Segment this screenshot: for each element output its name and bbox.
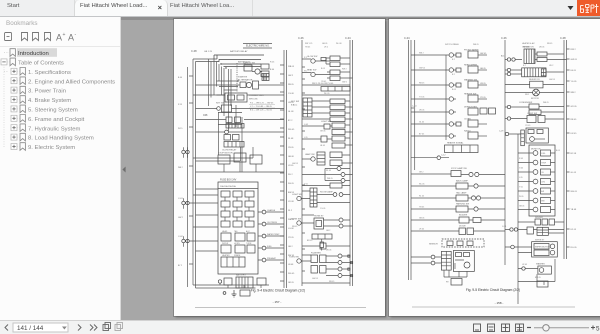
- pilot lamp L3: [258, 233, 284, 238]
- svg-text:L 05: L 05: [519, 177, 523, 179]
- svg-text:OIL PRESS: OIL PRESS: [267, 222, 278, 224]
- extra cluster y222-232: [302, 243, 350, 249]
- svg-text:WL 08: WL 08: [336, 43, 341, 45]
- svg-text:STARTER: STARTER: [238, 76, 248, 79]
- svg-text:-: -: [75, 32, 77, 38]
- svg-text:LIGHT SW: LIGHT SW: [321, 121, 331, 123]
- svg-text:WIPER RY: WIPER RY: [535, 240, 545, 242]
- svg-text:COMP SW: COMP SW: [527, 113, 537, 115]
- svg-text:YR 05: YR 05: [525, 125, 530, 127]
- right rail ticks: [567, 49, 570, 247]
- flasher unit FU1: [311, 252, 326, 263]
- junction box JB1: [526, 128, 548, 143]
- bottom bar: [0, 320, 600, 334]
- left rail ticks marks: [189, 76, 193, 264]
- svg-text:C-01: C-01: [178, 198, 184, 200]
- extra rung page1 y160-168: [302, 183, 350, 188]
- wire ladder feed: [445, 55, 447, 140]
- svg-text:L 05: L 05: [304, 137, 308, 139]
- svg-text:HORN RY: HORN RY: [314, 216, 324, 218]
- svg-text:RL 05: RL 05: [419, 196, 424, 198]
- svg-text:5. Steering System: 5. Steering System: [28, 108, 78, 114]
- svg-text:BW 05: BW 05: [535, 277, 541, 279]
- box slow blow: [257, 278, 266, 285]
- relay bank K3: [222, 135, 244, 152]
- gauge internal labels: [541, 153, 547, 203]
- svg-text:5: 5: [596, 325, 600, 332]
- glow resistor R1 pair: [321, 56, 350, 67]
- condenser label: [519, 102, 533, 104]
- svg-text:SENDER: SENDER: [535, 217, 544, 219]
- svg-text:WIPER: WIPER: [222, 243, 229, 245]
- node C-06 mid label: [501, 36, 507, 40]
- node C-04 rail label: [404, 36, 410, 40]
- svg-text:GW 05: GW 05: [292, 163, 298, 165]
- earth box bottom: [537, 281, 548, 287]
- svg-text:R 2: R 2: [304, 57, 307, 59]
- fuse row f4: [221, 221, 254, 227]
- svg-text:C-06: C-06: [501, 36, 507, 40]
- svg-text:LW 05: LW 05: [326, 250, 331, 252]
- sidebar: [0, 17, 121, 320]
- right column header codes page2: [522, 42, 552, 49]
- svg-text:WB 2: WB 2: [419, 53, 424, 55]
- svg-text:C-10: C-10: [412, 106, 417, 108]
- footer rule page2: [412, 306, 575, 308]
- svg-text:RESISTOR: RESISTOR: [529, 79, 540, 81]
- compressor rung: [505, 113, 564, 123]
- svg-text:BY 2: BY 2: [288, 120, 293, 122]
- svg-text:WG 05: WG 05: [571, 191, 578, 193]
- svg-text:RB 05: RB 05: [571, 119, 578, 121]
- svg-text:SPARE: SPARE: [234, 254, 241, 257]
- svg-text:BATTERY RELAY: BATTERY RELAY: [230, 50, 248, 53]
- caption figure title page2: [466, 288, 520, 292]
- svg-text:AIR: AIR: [541, 190, 545, 193]
- svg-text:KEY SW: KEY SW: [291, 101, 299, 103]
- fuse F10 cluster: [302, 121, 353, 135]
- fuse row f1: [221, 191, 254, 197]
- svg-text:RG 05: RG 05: [288, 183, 295, 185]
- starter motor M1: [252, 69, 262, 74]
- svg-text:ROOM LAMP: ROOM LAMP: [320, 191, 333, 194]
- svg-text:LR 05: LR 05: [419, 229, 424, 231]
- svg-text:C-02: C-02: [178, 236, 184, 238]
- svg-text:C-08: C-08: [560, 36, 566, 40]
- label strip wiring tag: [312, 234, 332, 239]
- svg-text:RW 1.25 GLOW PLUG: RW 1.25 GLOW PLUG: [312, 83, 334, 85]
- extra wire rows page1 right: [302, 95, 350, 283]
- svg-text:6. Frame and Cockpit: 6. Frame and Cockpit: [28, 117, 85, 123]
- svg-text:RB 05: RB 05: [288, 84, 294, 86]
- svg-text:GB 05: GB 05: [322, 43, 327, 45]
- blower switch boxes: [535, 52, 567, 62]
- svg-text:GW 05: GW 05: [419, 68, 425, 70]
- svg-text:R 15: R 15: [178, 104, 182, 106]
- terminal strip TS1: [321, 87, 350, 92]
- caption figure title: [251, 289, 305, 293]
- svg-text:PREHEAT: PREHEAT: [267, 257, 277, 260]
- page number page2: [495, 301, 504, 305]
- svg-text:C-08: C-08: [191, 49, 197, 53]
- svg-text:WG 05: WG 05: [288, 129, 295, 131]
- wiper connector grid: [533, 227, 564, 235]
- content: [121, 17, 600, 320]
- svg-text:C-12: C-12: [441, 155, 446, 157]
- svg-text:OIL: OIL: [541, 172, 544, 174]
- svg-text:WB 05: WB 05: [543, 102, 549, 104]
- wire outer ground line: [187, 67, 189, 287]
- svg-text:LW 05: LW 05: [539, 47, 544, 49]
- heater signal strip: [445, 142, 479, 153]
- sensor strip dashed: [429, 239, 484, 247]
- svg-text:PARKING SW: PARKING SW: [456, 203, 469, 206]
- horn relay K4: [302, 69, 330, 77]
- blower relay box: [505, 79, 564, 88]
- wire third rail: [414, 40, 416, 170]
- svg-text:YG 05: YG 05: [419, 97, 424, 99]
- svg-text:GW 05: GW 05: [549, 79, 555, 81]
- svg-text:B 2: B 2: [523, 65, 526, 67]
- connector C2 pair: [178, 198, 218, 209]
- svg-text:TAIL: TAIL: [234, 230, 238, 233]
- svg-text:LR 05: LR 05: [571, 229, 577, 231]
- relay block K2: [196, 117, 285, 128]
- svg-text:B 40: B 40: [270, 69, 275, 71]
- rung 2 rear wiper: [411, 64, 487, 74]
- right column sublabels page2: [519, 65, 560, 279]
- svg-text:GB 08: GB 08: [288, 156, 295, 158]
- fuse symbol F11: [320, 239, 324, 251]
- svg-text:HEATER & A/C: HEATER & A/C: [522, 42, 536, 45]
- rung sublabels page1: [307, 68, 347, 283]
- left ladder header codes: [445, 43, 479, 46]
- wire harness rows upper-mid: [193, 147, 253, 161]
- svg-text:LR 2: LR 2: [324, 47, 328, 49]
- gauge row 4: [518, 179, 555, 185]
- rung 11 brake: [411, 203, 505, 213]
- svg-text:L 2 — YG 0.85 — RB 05: L 2 — YG 0.85 — RB 05: [250, 106, 273, 108]
- condenser boxes: [529, 104, 564, 115]
- svg-text:FUEL: FUEL: [267, 246, 272, 248]
- svg-text:HEATER SIGNAL: HEATER SIGNAL: [447, 142, 464, 145]
- svg-text:GR 05: GR 05: [288, 282, 295, 284]
- svg-text:WB 2: WB 2: [178, 167, 183, 169]
- gauge row 3: [518, 169, 555, 175]
- rail connector squares: [348, 255, 353, 277]
- wire row y153: [196, 171, 285, 173]
- room lamp switch S3: [292, 191, 310, 201]
- accessory relay boxes: [330, 99, 345, 122]
- svg-text:LW 2: LW 2: [549, 65, 553, 67]
- connector C1 pair: [182, 147, 189, 157]
- svg-text:HEAT SW: HEAT SW: [307, 69, 316, 72]
- svg-text:GB 05: GB 05: [419, 218, 424, 220]
- wire top feed bus pair: [193, 59, 217, 288]
- right column header codes: [305, 43, 341, 49]
- svg-text:GR 05: GR 05: [571, 106, 578, 108]
- svg-text:A: A: [68, 33, 74, 43]
- box starter cable tag: [223, 290, 250, 296]
- svg-text:YG 05: YG 05: [320, 208, 325, 210]
- svg-text:STOP LAMP SW: STOP LAMP SW: [451, 167, 467, 170]
- pilot lamp L4: [258, 246, 284, 250]
- gauge feed circle: [499, 131, 521, 136]
- svg-text:C-04: C-04: [404, 36, 410, 40]
- wire right column right rail pair: [350, 40, 353, 286]
- svg-text:RB 05: RB 05: [547, 43, 552, 45]
- svg-text:YB 05: YB 05: [288, 147, 294, 149]
- svg-text:WL 05: WL 05: [419, 184, 424, 186]
- svg-text:WASHER: WASHER: [536, 263, 545, 266]
- svg-text:W 15: W 15: [178, 128, 182, 130]
- wire left rail pair: [409, 40, 412, 280]
- svg-text:- 158 -: - 158 -: [495, 301, 504, 305]
- gauge cluster box: [529, 145, 555, 216]
- lighting switch rung 1: [411, 50, 487, 59]
- svg-text:WATER TEMP: WATER TEMP: [267, 233, 280, 236]
- svg-text:R 2 — WB 1.25 — GW 05: R 2 — WB 1.25 — GW 05: [250, 103, 274, 105]
- svg-text:3. Power Train: 3. Power Train: [28, 89, 66, 95]
- svg-text:YB 05: YB 05: [419, 207, 424, 209]
- svg-text:C-04: C-04: [345, 36, 351, 40]
- heater connector circles: [505, 68, 564, 75]
- svg-text:GW 2: GW 2: [288, 75, 294, 77]
- svg-text:WB 05: WB 05: [327, 178, 333, 180]
- fuel cut cluster boxes: [218, 153, 262, 173]
- sender row boxes: [518, 219, 564, 225]
- svg-text:HEAD: HEAD: [222, 230, 228, 233]
- svg-text:GL 05: GL 05: [419, 122, 424, 124]
- alternator G1: [238, 79, 259, 90]
- footer rule: [195, 307, 366, 309]
- svg-text:9. Electric System: 9. Electric System: [28, 145, 75, 151]
- svg-text:BY 05: BY 05: [419, 134, 424, 136]
- fan motor M2: [505, 89, 564, 100]
- svg-text:YR 05: YR 05: [480, 97, 486, 99]
- horn switch S4: [291, 215, 314, 225]
- svg-text:RB 2: RB 2: [525, 94, 529, 96]
- svg-text:WR 0.85: WR 0.85: [249, 99, 258, 101]
- svg-text:Y 05: Y 05: [519, 187, 523, 189]
- connector block CN3: [310, 188, 317, 207]
- wire right column left rail: [301, 40, 303, 286]
- wire top routing corners: [214, 55, 264, 67]
- svg-text:FUSE BOX 24V: FUSE BOX 24V: [220, 180, 237, 182]
- node C08 mid-rail label: [203, 114, 208, 117]
- svg-text:MONITOR: MONITOR: [531, 149, 541, 151]
- svg-text:LR 05: LR 05: [522, 264, 527, 266]
- heater core box: [522, 68, 546, 77]
- svg-text:WG 05: WG 05: [288, 273, 295, 275]
- control unit box: [453, 251, 474, 272]
- connector strip CN11: [521, 130, 525, 146]
- rung 13 diode pack: [411, 226, 505, 235]
- svg-text:4. Brake System: 4. Brake System: [28, 98, 71, 104]
- turn lamp TL1: [326, 254, 350, 258]
- wire drops from top bus: [209, 59, 229, 131]
- svg-text:G 05: G 05: [519, 168, 523, 170]
- glow plug switch S2: [302, 56, 330, 63]
- safety relay label texts: [238, 61, 275, 79]
- rung 10 tail: [411, 192, 505, 202]
- mid bus ticks: [280, 65, 284, 281]
- rail-side wire codes page1: [292, 57, 308, 228]
- mid bus pair: [284, 50, 287, 288]
- gauge row 5: [518, 188, 555, 194]
- left rail tick C-10: [411, 106, 417, 109]
- node C-08 right label: [560, 36, 566, 40]
- svg-text:A/C: A/C: [501, 55, 505, 58]
- svg-text:LW 05: LW 05: [419, 110, 424, 112]
- wire dashed ground run: [236, 63, 238, 92]
- svg-text:RW 1.25: RW 1.25: [305, 43, 312, 45]
- right rail tick labels: [571, 49, 578, 249]
- svg-text:BY 2: BY 2: [178, 265, 182, 267]
- svg-text:LW 05: LW 05: [480, 83, 487, 85]
- node C-06 rail label: [298, 36, 304, 40]
- svg-text:GW 2: GW 2: [342, 82, 347, 84]
- svg-text:WL 2: WL 2: [288, 174, 293, 176]
- connector C3 pair: [178, 236, 218, 247]
- svg-text:B 2: B 2: [452, 74, 455, 76]
- ladder sublabels page2: [419, 53, 456, 231]
- svg-text:STOP MOTOR: STOP MOTOR: [218, 153, 233, 155]
- fuse box internal labels: [222, 230, 252, 257]
- svg-text:1. Specifications: 1. Specifications: [28, 70, 71, 76]
- svg-text:W 05: W 05: [519, 196, 523, 198]
- svg-text:RW 2: RW 2: [342, 69, 347, 71]
- svg-text:WB 05: WB 05: [473, 44, 479, 46]
- svg-text:GY 08: GY 08: [288, 201, 295, 203]
- svg-text:+: +: [63, 32, 66, 38]
- svg-text:GB 05: GB 05: [519, 206, 524, 208]
- washer connector: [518, 267, 538, 270]
- svg-text:SENSOR: SENSOR: [429, 244, 438, 246]
- svg-text:RESISTOR: RESISTOR: [523, 47, 534, 49]
- svg-text:B 05: B 05: [556, 150, 560, 152]
- washer motor box: [536, 263, 551, 275]
- connector pair bottom left: [411, 255, 441, 265]
- wire bottom bus: [518, 259, 555, 285]
- svg-text:ACC: ACC: [246, 230, 251, 233]
- svg-text:HORN: HORN: [234, 243, 240, 245]
- wire code legend rows: [250, 103, 274, 112]
- gauge row 2: [518, 160, 555, 166]
- ac connector pair: [501, 55, 522, 62]
- svg-text:GLOW RELAY: GLOW RELAY: [222, 149, 237, 152]
- svg-text:C-11: C-11: [502, 226, 507, 228]
- left rail tick labels: [178, 77, 183, 267]
- svg-text:GB 2: GB 2: [326, 230, 330, 232]
- svg-text:GW 05: GW 05: [480, 53, 487, 55]
- mid rail B: [517, 134, 519, 304]
- svg-text:GB 1.25: GB 1.25: [204, 51, 213, 53]
- svg-text:YG 08: YG 08: [288, 93, 295, 95]
- svg-text:GL 08: GL 08: [288, 111, 294, 113]
- svg-text:W 2: W 2: [304, 71, 307, 73]
- svg-text:10A 10A 15A 20A: 10A 10A 15A 20A: [220, 185, 236, 188]
- head lamp L7: [325, 173, 353, 177]
- wire single rung y66: [302, 83, 350, 85]
- svg-text:LB 05: LB 05: [320, 145, 325, 147]
- fuse box header strip: [218, 185, 258, 189]
- resistor R2 pair: [327, 70, 353, 81]
- wiper feed circles: [502, 226, 527, 231]
- svg-text:RG 05: RG 05: [571, 247, 578, 249]
- head lamp L6: [325, 167, 350, 171]
- svg-text:BUZZER: BUZZER: [459, 215, 468, 217]
- horn relay K6: [314, 216, 324, 230]
- svg-text:ALTERNATOR: ALTERNATOR: [238, 79, 253, 82]
- condenser circle: [505, 105, 529, 108]
- relay box bottom: [446, 279, 462, 286]
- turn signal switch S5: [289, 255, 311, 263]
- svg-text:B 2: B 2: [452, 59, 455, 61]
- svg-text:DIODE: DIODE: [459, 226, 466, 228]
- svg-text:GW 05: GW 05: [571, 59, 578, 61]
- fusible link box FL1: [225, 93, 264, 102]
- rung 6 cigar: [411, 118, 487, 128]
- svg-text:RY: RY: [446, 282, 449, 284]
- pilot lamp L1: [258, 209, 284, 214]
- rung 3 washer: [411, 79, 487, 89]
- wire rows key block to boxes: [302, 101, 353, 119]
- ignition switch S1: [196, 103, 285, 113]
- svg-text:YR 05: YR 05: [288, 237, 294, 239]
- svg-text:BRK: BRK: [541, 201, 545, 203]
- wire drops bottom: [444, 270, 467, 277]
- svg-text:7. Hydraulic System: 7. Hydraulic System: [28, 126, 80, 132]
- svg-text:YG 05: YG 05: [571, 81, 578, 83]
- svg-text:CHG: CHG: [541, 182, 545, 184]
- wiper motor box WM1: [532, 242, 558, 257]
- svg-text:BACK LAMP: BACK LAMP: [456, 180, 469, 183]
- svg-text:RL 08: RL 08: [288, 138, 294, 140]
- svg-text:TAIL LAMP: TAIL LAMP: [456, 192, 467, 195]
- pilot lamp L2: [258, 222, 284, 226]
- wire ground bus bottom: [193, 283, 269, 288]
- svg-text:C-09: C-09: [499, 131, 504, 133]
- svg-text:TEMP: TEMP: [541, 163, 547, 165]
- svg-text:GW 2: GW 2: [178, 217, 183, 219]
- rung 8 brake lamp: [411, 167, 505, 177]
- svg-text:SWITCH PANEL: SWITCH PANEL: [445, 43, 459, 46]
- starter relay boxes: [261, 64, 269, 77]
- wire feed verticals mid-left: [218, 69, 242, 172]
- svg-text:MOTOR: MOTOR: [531, 98, 539, 100]
- svg-text:GB 05: GB 05: [480, 68, 487, 70]
- lamp check circle: [196, 130, 285, 134]
- tab bar: [0, 0, 600, 17]
- svg-text:TURN: TURN: [246, 243, 252, 245]
- fuse box FB1 outline: [218, 180, 258, 275]
- hazard switch S6: [311, 266, 326, 274]
- svg-text:C-06: C-06: [298, 36, 304, 40]
- connector circle C-12: [411, 155, 449, 160]
- svg-text:B ACC: B ACC: [291, 104, 298, 107]
- svg-text:YB 05: YB 05: [321, 81, 326, 83]
- svg-text:Fig. 9-4 Electric Circuit Di: Fig. 9-4 Electric Circuit Diagram (1/2): [251, 289, 305, 293]
- svg-text:2. Engine and Allied Component: 2. Engine and Allied Components: [28, 79, 115, 85]
- svg-text:RW 2: RW 2: [571, 49, 577, 51]
- rung 9 backup: [411, 180, 505, 190]
- connector grid CN1: [262, 74, 269, 81]
- wiper left connector: [505, 245, 532, 252]
- svg-text:CHARGE: CHARGE: [267, 209, 276, 212]
- svg-text:B 05: B 05: [452, 89, 456, 91]
- wire upper knot horizontals: [217, 81, 239, 95]
